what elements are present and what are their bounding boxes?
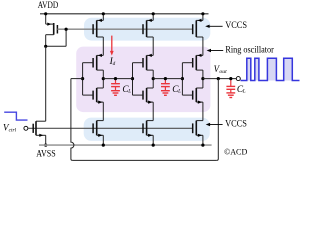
junction on AVDD rail at M2 source [44, 12, 47, 15]
CL label (first stage) [122, 85, 131, 95]
junction at M1 source on AVSS rail [44, 144, 47, 147]
inverter PMOS of second stage [143, 54, 153, 79]
wire stage2 output to stage3 input [153, 78, 182, 80]
diode connection wire (M2 gate to drain) [46, 29, 66, 46]
svg-text:L: L [242, 89, 246, 95]
AVSS label [36, 149, 55, 159]
ACD watermark [224, 147, 247, 157]
input node of third stage [181, 77, 184, 80]
AVSS rail [39, 144, 212, 146]
junction of CL2 on output wire [164, 77, 167, 80]
AVDD label [38, 0, 59, 10]
output square-wave waveform (blue) [241, 58, 300, 80]
input gate wire of third stage [182, 63, 192, 95]
ring oscillator region [76, 47, 210, 113]
Ring oscillator callout [207, 45, 274, 55]
svg-text:L: L [177, 89, 181, 95]
junction of CL3 on output wire [229, 77, 232, 80]
input node of second stage [131, 77, 134, 80]
junction on AVDD rail (first stage) [102, 12, 105, 15]
Vctrl step waveform (blue) [4, 112, 27, 120]
wire VCCS PMOS drain to inverter PMOS source (third stage) [202, 37, 204, 55]
inverter NMOS of first stage [93, 79, 103, 121]
node between M2 drain and M1 drain [44, 45, 47, 48]
feedback junction at Vout wire [217, 77, 220, 80]
output node of third stage [201, 77, 204, 80]
svg-text:AVSS: AVSS [36, 149, 55, 159]
input node of first stage [81, 77, 84, 80]
inverter PMOS of third stage [193, 54, 203, 79]
svg-text:out: out [219, 69, 227, 75]
wire stage1 output to stage2 input [103, 78, 132, 80]
Vctrl gate bus [28, 127, 193, 129]
VCCS callout (top) [205, 20, 247, 30]
junction at AVSS rail (second stage) [152, 144, 155, 147]
junction on AVDD rail (third stage) [201, 12, 204, 15]
svg-text:AVDD: AVDD [38, 0, 59, 10]
svg-text:©ACD: ©ACD [224, 147, 247, 157]
transistor M2 (diode-connected PMOS) [46, 14, 58, 47]
AVDD rail [40, 13, 209, 15]
VCCS region (bottom, NMOS current sources) [84, 118, 210, 141]
wire feedback to first stage input [71, 78, 83, 80]
NMOS current source of first stage (VCCS bottom) [93, 121, 103, 146]
feedback wire left segment with hop over AVSS [71, 79, 74, 161]
Vctrl label [3, 123, 17, 134]
capacitor CL of second stage (with ground) [161, 79, 170, 96]
junction of gate bus and diode wire [65, 28, 68, 31]
svg-text:ctrl: ctrl [9, 128, 17, 134]
PMOS current source of third stage (VCCS top) [193, 14, 203, 37]
inverter NMOS of second stage [143, 79, 153, 121]
capacitor CL at Vout (with ground) [226, 79, 235, 98]
junction at AVSS rail (third stage) [201, 144, 204, 147]
input gate wire of first stage [83, 63, 94, 95]
output node of second stage [152, 77, 155, 80]
inverter NMOS of third stage [193, 79, 203, 121]
PMOS current source of first stage (VCCS top) [93, 14, 103, 37]
wire VCCS PMOS drain to inverter PMOS source (first stage) [102, 37, 104, 55]
NMOS current source of second stage (VCCS bottom) [143, 121, 153, 146]
junction at AVSS rail (first stage) [102, 144, 105, 147]
VCCS callout (bottom) [206, 118, 247, 128]
Vctrl input terminal [24, 126, 28, 130]
PMOS current source of second stage (VCCS top) [143, 14, 153, 37]
input gate wire of second stage [133, 63, 144, 95]
svg-text:VCCS: VCCS [225, 20, 247, 30]
inverter PMOS of first stage [93, 54, 103, 79]
feedback wire right segment [217, 79, 219, 161]
svg-text:VCCS: VCCS [225, 118, 247, 128]
VCCS region (top, PMOS current sources) [84, 18, 210, 41]
Id current arrow (red) [110, 36, 114, 56]
Id label [109, 57, 116, 67]
CL label (second stage) [172, 85, 181, 95]
svg-text:d: d [113, 61, 116, 67]
transistor M1 (NMOS controlled by Vctrl) [33, 121, 46, 145]
wire from M2 drain node down to M1 drain [45, 46, 47, 121]
PMOS mirror gate bus [57, 28, 192, 30]
capacitor CL of first stage (with ground) [111, 79, 120, 96]
svg-text:Ring oscillator: Ring oscillator [225, 45, 274, 55]
junction on AVDD rail (second stage) [152, 12, 155, 15]
junction of CL1 on output wire [114, 77, 117, 80]
CL label (Vout) [237, 85, 246, 95]
Vout label [214, 64, 227, 75]
feedback wire bottom segment [72, 159, 216, 161]
wire VCCS PMOS drain to inverter PMOS source (second stage) [152, 37, 154, 55]
NMOS current source of third stage (VCCS bottom) [193, 121, 203, 146]
Vout terminal [236, 77, 240, 81]
output node of first stage [102, 77, 105, 80]
wire stage3 output to Vout terminal [203, 78, 236, 80]
svg-text:L: L [127, 89, 131, 95]
